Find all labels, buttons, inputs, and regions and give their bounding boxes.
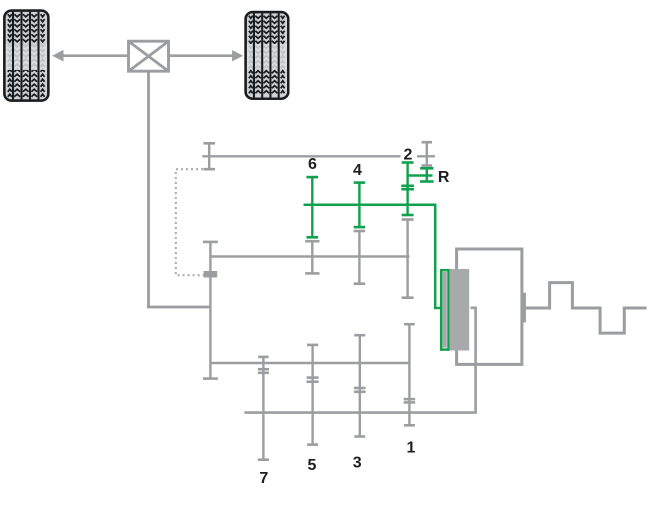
svg-text:1: 1 [406,440,415,457]
svg-text:2: 2 [404,146,413,163]
svg-text:R: R [438,169,450,186]
svg-text:5: 5 [308,457,317,474]
svg-text:6: 6 [308,156,317,173]
svg-text:3: 3 [353,455,362,472]
svg-text:7: 7 [259,470,268,487]
svg-text:4: 4 [353,162,362,179]
